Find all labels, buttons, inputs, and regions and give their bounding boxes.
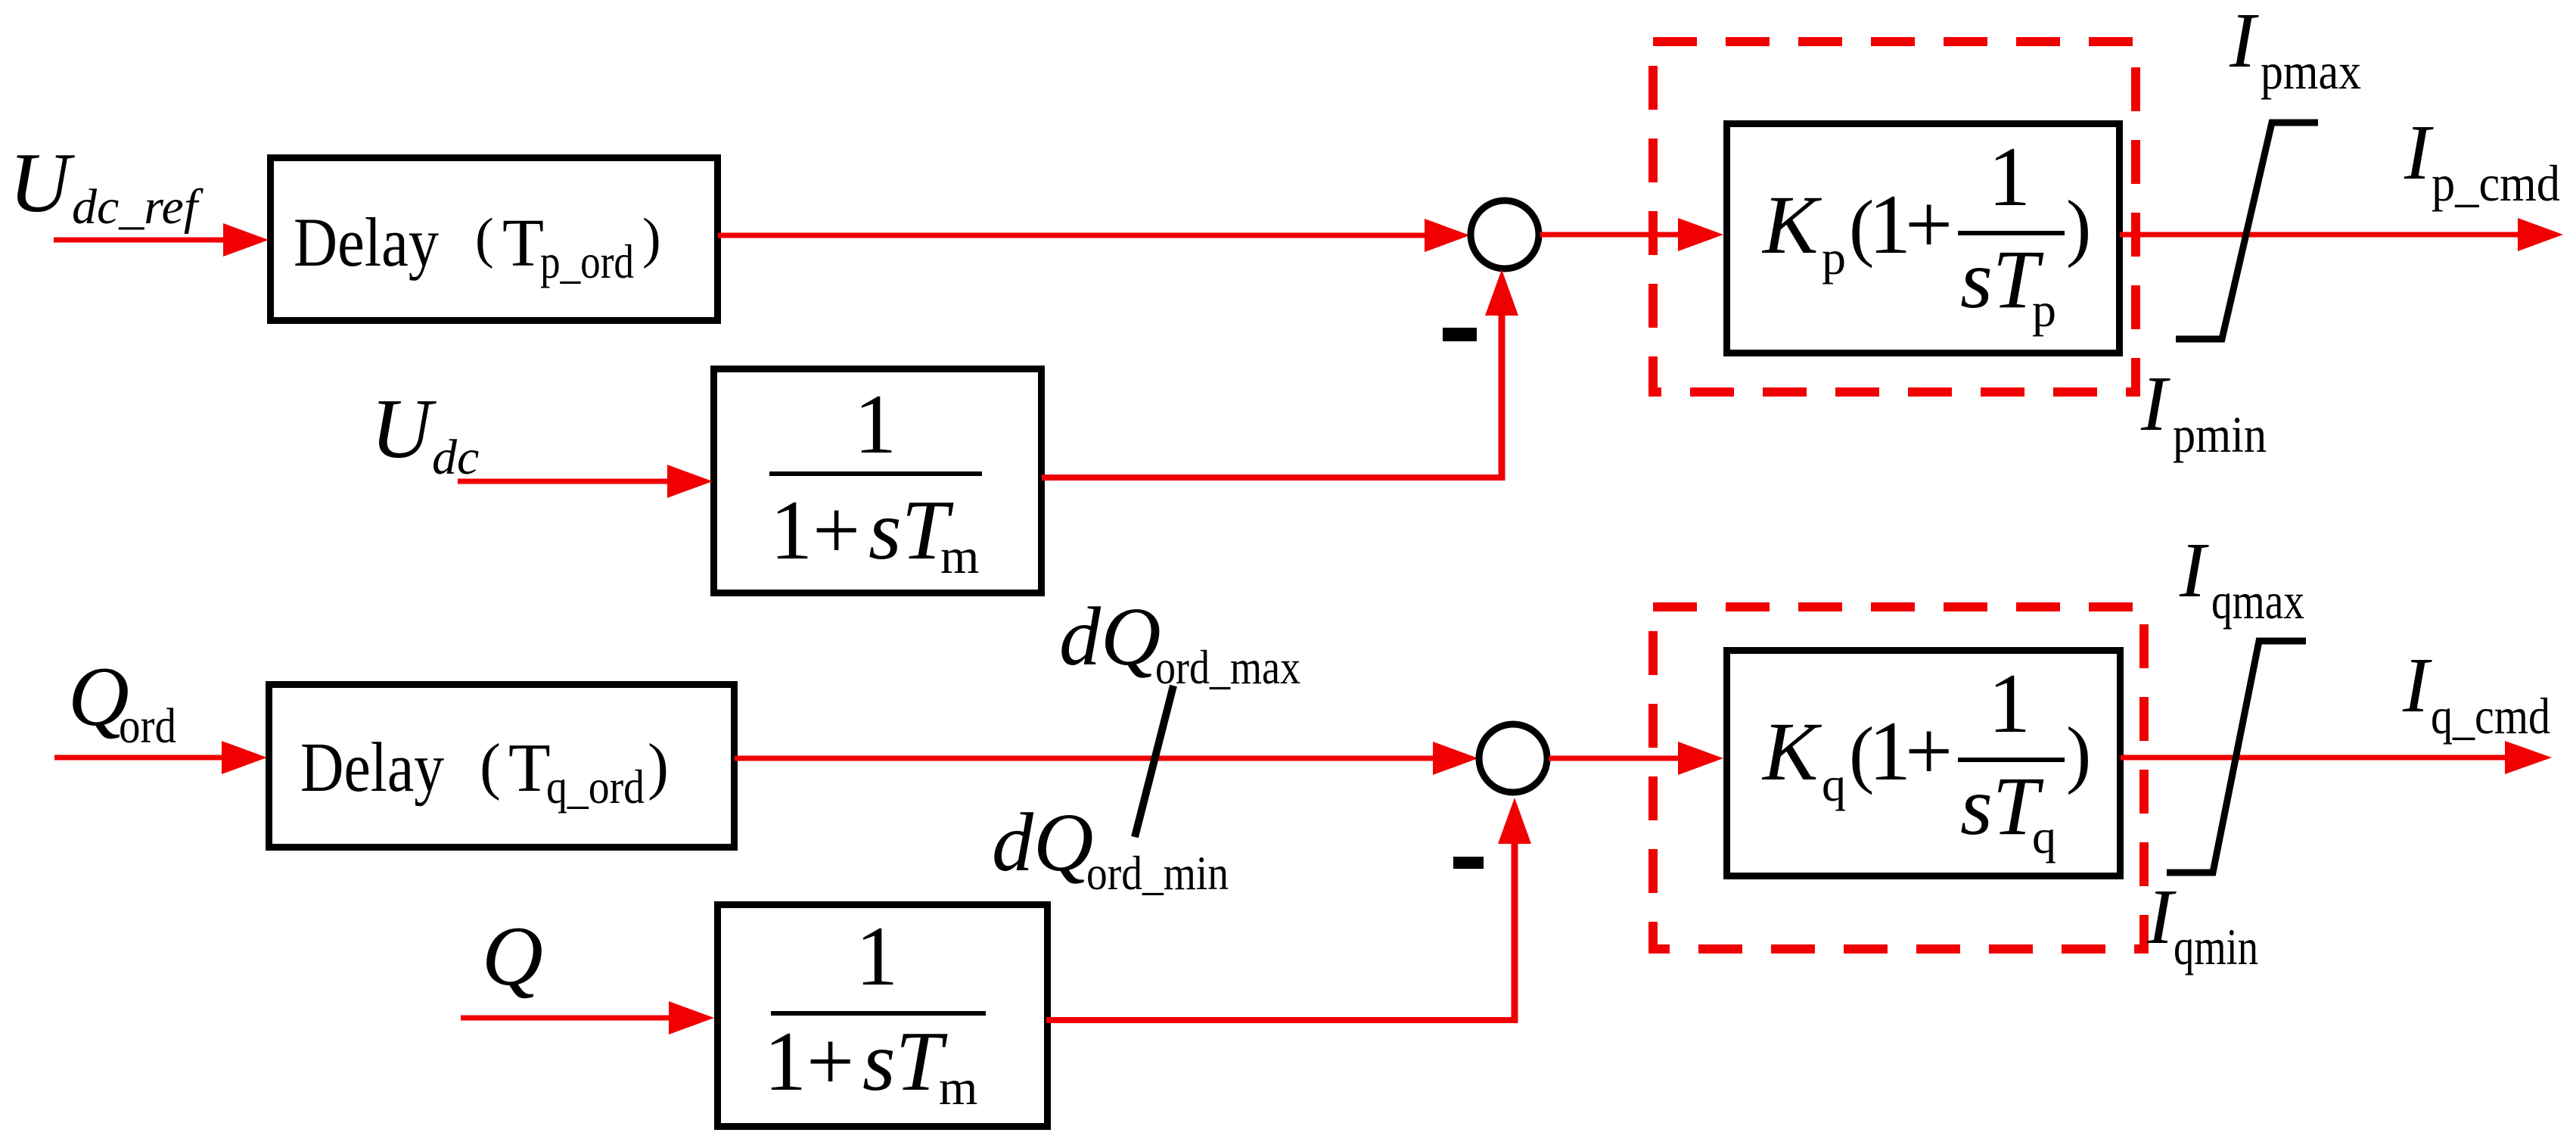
node U_dc_ref label bbox=[9, 136, 204, 235]
svg-text:): ) bbox=[2066, 711, 2091, 795]
minus sign 1 bbox=[1443, 328, 1477, 341]
svg-text:dQ: dQ bbox=[1059, 590, 1161, 683]
svg-text:q_cmd: q_cmd bbox=[2431, 687, 2550, 745]
svg-text:ord_max: ord_max bbox=[1155, 640, 1300, 694]
svg-text:I: I bbox=[2140, 360, 2170, 447]
svg-text:I: I bbox=[2179, 527, 2209, 614]
svg-text:I: I bbox=[2402, 642, 2432, 729]
formula Kq(1+1/sTq) bbox=[1761, 657, 2091, 863]
svg-text:Delay: Delay bbox=[294, 204, 439, 281]
block 1/(1+sTm) top bbox=[714, 369, 1042, 593]
svg-text:qmin: qmin bbox=[2174, 918, 2258, 975]
wire sum1 to Kp bbox=[1540, 218, 1723, 251]
block Delay (Tp_ord) bbox=[271, 158, 718, 321]
block Kp(1+1/sTp) bbox=[1727, 124, 2120, 353]
svg-text:): ) bbox=[642, 207, 661, 269]
wire Q_ord input arrow bbox=[54, 741, 267, 774]
svg-text:+: + bbox=[813, 484, 860, 577]
node Q_ord label bbox=[68, 650, 176, 754]
svg-text:): ) bbox=[2066, 185, 2091, 269]
summing junction 1 bbox=[1471, 201, 1539, 269]
svg-text:q_ord: q_ord bbox=[546, 760, 645, 814]
svg-text:q: q bbox=[1822, 758, 1846, 811]
svg-text:m: m bbox=[939, 1060, 977, 1115]
wire Tm2 output feedback to sum2 bbox=[1046, 798, 1531, 1023]
svg-text:p: p bbox=[1822, 231, 1846, 285]
rate limiter slash bbox=[1135, 686, 1173, 837]
svg-text:m: m bbox=[940, 529, 979, 584]
svg-text:I: I bbox=[2229, 0, 2259, 84]
svg-text:qmax: qmax bbox=[2211, 572, 2304, 630]
node I_pmax label bbox=[2229, 0, 2361, 100]
svg-text:1: 1 bbox=[854, 378, 896, 471]
svg-text:pmax: pmax bbox=[2261, 42, 2361, 100]
svg-text:U: U bbox=[9, 136, 75, 230]
svg-text:+: + bbox=[1905, 705, 1953, 798]
svg-text:ord: ord bbox=[119, 699, 176, 754]
svg-text:I: I bbox=[2146, 873, 2177, 960]
svg-text:): ) bbox=[648, 731, 669, 801]
svg-text:+: + bbox=[1905, 178, 1953, 272]
node dQ_ord_max label bbox=[1059, 590, 1300, 694]
node I_qmin label bbox=[2146, 873, 2258, 975]
svg-text:(: ( bbox=[475, 207, 494, 269]
label Delay (Tq_ord) bbox=[300, 729, 669, 814]
formula 1/(1+sTm) bottom bbox=[764, 910, 986, 1115]
svg-text:Q: Q bbox=[482, 910, 543, 1003]
svg-text:1: 1 bbox=[1988, 130, 2031, 224]
svg-text:Delay: Delay bbox=[300, 729, 444, 807]
svg-text:1: 1 bbox=[770, 484, 813, 577]
block Delay (Tq_ord) bbox=[269, 685, 735, 848]
svg-text:dQ: dQ bbox=[992, 796, 1093, 888]
svg-text:p: p bbox=[2032, 283, 2056, 337]
dashed subsystem box P-controller bbox=[1653, 42, 2136, 392]
label Delay (Tp_ord) bbox=[294, 204, 661, 288]
svg-text:p_ord: p_ord bbox=[540, 235, 634, 288]
dashed subsystem box Q-controller bbox=[1653, 607, 2144, 949]
node U_dc label bbox=[371, 382, 479, 485]
node dQ_ord_min label bbox=[992, 796, 1229, 900]
svg-text:p_cmd: p_cmd bbox=[2432, 154, 2560, 212]
svg-text:dc: dc bbox=[432, 430, 479, 485]
wire U_dc_ref input arrow bbox=[54, 223, 269, 257]
wire Delay2 to summing junction 2 bbox=[735, 742, 1478, 775]
svg-text:dc_ref: dc_ref bbox=[72, 179, 204, 235]
limiter (saturation) symbol top bbox=[2176, 123, 2318, 339]
block 1/(1+sTm) bottom bbox=[718, 905, 1048, 1127]
node I_pmin label bbox=[2140, 360, 2267, 463]
svg-text:q: q bbox=[2032, 810, 2056, 863]
node I_p_cmd label bbox=[2404, 109, 2560, 212]
svg-text:1: 1 bbox=[764, 1015, 806, 1109]
svg-text:1: 1 bbox=[1988, 657, 2031, 751]
svg-text:sT: sT bbox=[862, 1015, 948, 1109]
svg-text:K: K bbox=[1761, 705, 1822, 798]
svg-text:I: I bbox=[2404, 109, 2434, 196]
svg-text:T: T bbox=[508, 730, 551, 806]
svg-text:T: T bbox=[502, 206, 544, 281]
svg-text:+: + bbox=[806, 1015, 854, 1109]
formula Kp(1+1/sTp) bbox=[1761, 130, 2091, 337]
svg-text:ord_min: ord_min bbox=[1086, 846, 1229, 900]
wire Q input arrow bbox=[461, 1001, 714, 1035]
wire Kq output bbox=[2121, 741, 2552, 774]
node I_qmax label bbox=[2179, 527, 2304, 630]
summing junction 2 bbox=[1479, 724, 1547, 792]
wire sum2 to Kq bbox=[1549, 742, 1723, 775]
svg-text:(: ( bbox=[480, 731, 501, 801]
block Kq(1+1/sTq) bbox=[1727, 651, 2121, 876]
svg-text:1: 1 bbox=[856, 910, 898, 1003]
minus sign 2 bbox=[1453, 857, 1484, 869]
formula 1/(1+sTm) top bbox=[769, 378, 982, 584]
wire Kp output bbox=[2120, 218, 2563, 251]
svg-text:pmin: pmin bbox=[2173, 406, 2267, 463]
svg-text:K: K bbox=[1761, 179, 1822, 271]
limiter (saturation) symbol bottom bbox=[2167, 641, 2306, 873]
node I_q_cmd label bbox=[2402, 642, 2550, 745]
wire Delay1 to summing junction 1 bbox=[718, 219, 1470, 252]
svg-text:U: U bbox=[371, 382, 437, 476]
wire U_dc input arrow bbox=[458, 465, 713, 498]
wire Tm1 output feedback to sum1 bbox=[1042, 269, 1518, 481]
